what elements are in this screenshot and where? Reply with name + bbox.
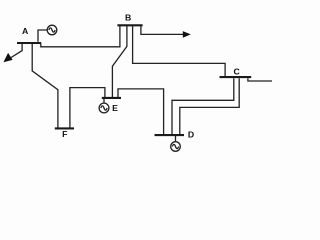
svg-text:E: E: [112, 103, 118, 113]
svg-text:F: F: [62, 129, 67, 139]
svg-text:B: B: [125, 13, 131, 23]
svg-text:A: A: [22, 26, 29, 36]
svg-text:C: C: [233, 66, 240, 76]
svg-text:D: D: [188, 130, 194, 140]
